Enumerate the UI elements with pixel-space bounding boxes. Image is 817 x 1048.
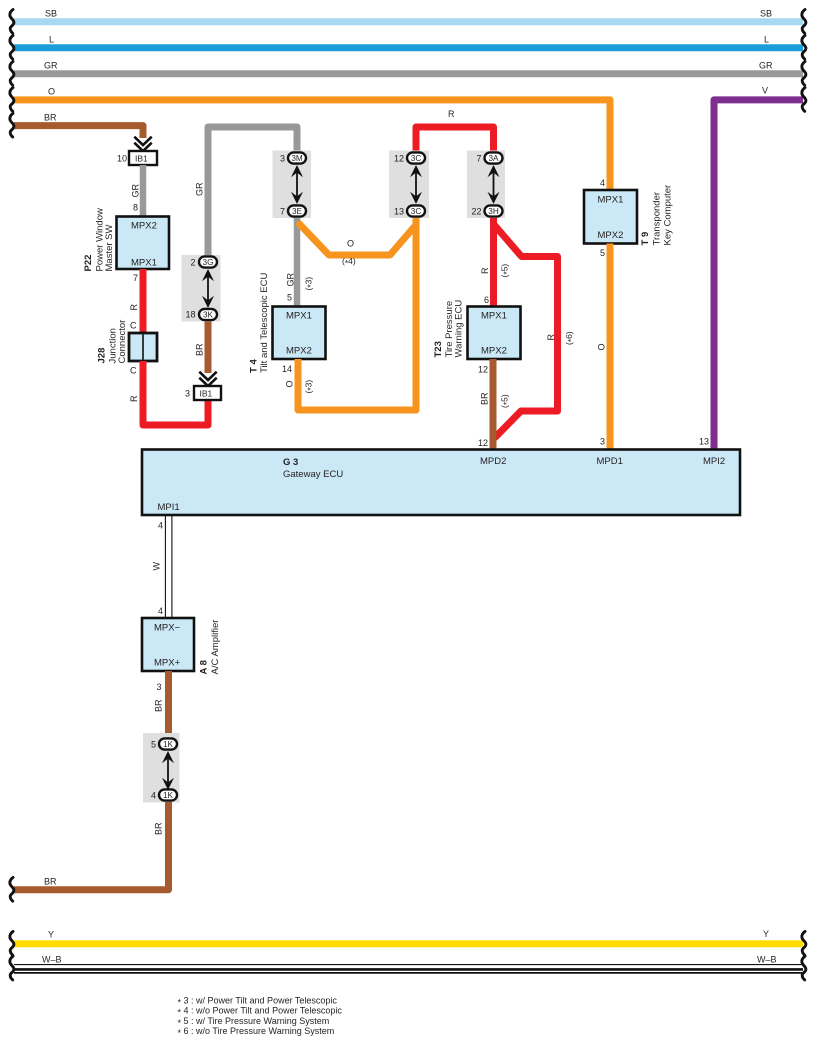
svg-text:Tilt and Telescopic ECU: Tilt and Telescopic ECU bbox=[259, 273, 270, 373]
wire R (*6) bypass loop bbox=[494, 224, 558, 438]
wire W-B bus (white with black stripe) bbox=[14, 964, 803, 966]
svg-text:5: 5 bbox=[287, 293, 292, 303]
wire V bus to G3 MPI2 bbox=[714, 100, 803, 451]
svg-text:R: R bbox=[129, 304, 139, 311]
svg-text:T23: T23 bbox=[433, 341, 444, 357]
chevron arrow into IB1 pin 3 bbox=[199, 372, 216, 386]
svg-text:3C: 3C bbox=[411, 154, 422, 163]
ECU T4 Tilt and Telescopic bbox=[273, 307, 326, 360]
svg-text:J28: J28 bbox=[97, 348, 108, 364]
wire Y bus bbox=[14, 940, 803, 947]
wire W from G3 MPI1 to A8 (white wire, outlined) bbox=[164, 515, 166, 618]
svg-text:BR: BR bbox=[154, 699, 164, 712]
chevron arrow into IB1 pin 10 bbox=[134, 137, 151, 151]
svg-text:C: C bbox=[130, 366, 137, 376]
svg-text:SB: SB bbox=[760, 9, 772, 19]
svg-text:L: L bbox=[764, 35, 769, 45]
svg-text:C: C bbox=[130, 321, 137, 331]
double arrow 3C-3C bbox=[410, 165, 422, 204]
svg-text:MPX2: MPX2 bbox=[598, 230, 624, 241]
svg-text:MPX1: MPX1 bbox=[598, 195, 624, 206]
junction connector J28 bbox=[129, 333, 157, 361]
svg-text:6: 6 bbox=[484, 295, 489, 305]
svg-text:2: 2 bbox=[190, 257, 195, 267]
svg-text:4: 4 bbox=[158, 606, 163, 616]
svg-text:GR: GR bbox=[759, 61, 773, 71]
break symbol GR left bbox=[10, 62, 14, 86]
svg-text:V: V bbox=[762, 86, 768, 96]
svg-text:7: 7 bbox=[476, 153, 481, 163]
svg-text:BR: BR bbox=[154, 822, 164, 835]
svg-text:4: 4 bbox=[600, 178, 605, 188]
svg-text:7: 7 bbox=[280, 206, 285, 216]
svg-text:MPX2: MPX2 bbox=[286, 346, 312, 357]
svg-text:R: R bbox=[129, 395, 139, 402]
svg-text:3C: 3C bbox=[411, 207, 422, 216]
svg-text:W–B: W–B bbox=[42, 955, 62, 965]
svg-text:4: 4 bbox=[151, 790, 156, 800]
svg-text:Master SW: Master SW bbox=[104, 224, 115, 271]
svg-text:3: 3 bbox=[280, 153, 285, 163]
connector shade 3G/3K bbox=[182, 255, 221, 322]
svg-text:IB1: IB1 bbox=[200, 389, 213, 399]
svg-text:MPX−: MPX− bbox=[154, 623, 181, 634]
svg-text:MPD1: MPD1 bbox=[597, 456, 623, 467]
svg-text:18: 18 bbox=[185, 310, 195, 320]
svg-text:MPI1: MPI1 bbox=[158, 502, 180, 513]
svg-text:13: 13 bbox=[699, 437, 709, 447]
svg-text:L: L bbox=[49, 35, 54, 45]
wire O bus to T9 pin 4 bbox=[14, 100, 610, 190]
svg-text:O: O bbox=[48, 87, 55, 97]
svg-text:MPI2: MPI2 bbox=[703, 456, 725, 467]
wire R from P22 pin 7 to J28 bbox=[140, 269, 147, 333]
svg-text:12: 12 bbox=[478, 365, 488, 375]
svg-text:3: 3 bbox=[600, 437, 605, 447]
svg-text:MPX1: MPX1 bbox=[481, 311, 507, 322]
ECU P22 Power Window Master SW bbox=[117, 217, 170, 270]
connector shade 3A/3H bbox=[467, 151, 505, 219]
wire SB bus bbox=[14, 18, 803, 25]
svg-text:O: O bbox=[597, 343, 607, 350]
svg-text:SB: SB bbox=[45, 9, 57, 19]
connector IB1 (pin 10) bbox=[129, 151, 157, 165]
svg-text:MPX2: MPX2 bbox=[131, 221, 157, 232]
svg-text:R: R bbox=[448, 109, 455, 119]
svg-text:3E: 3E bbox=[292, 207, 303, 216]
connector 3M pin 3 bbox=[288, 152, 306, 163]
svg-text:Key Computer: Key Computer bbox=[663, 185, 674, 246]
wire L bus bbox=[14, 44, 803, 51]
svg-text:3A: 3A bbox=[488, 154, 499, 163]
svg-text:3H: 3H bbox=[488, 207, 499, 216]
svg-text:3M: 3M bbox=[291, 154, 303, 163]
wire O from T9 pin 5 to G3 MPD1 bbox=[607, 244, 614, 452]
wire GR bridge 3G to 3M bbox=[208, 127, 297, 256]
svg-text:12: 12 bbox=[394, 153, 404, 163]
ECU T23 Tire Pressure Warning bbox=[468, 307, 521, 360]
svg-text:BR: BR bbox=[44, 113, 57, 123]
break symbol V right bbox=[802, 88, 806, 112]
break symbol GR right bbox=[802, 62, 806, 86]
connector shade 3M/3E bbox=[273, 151, 312, 219]
svg-text:3: 3 bbox=[157, 682, 162, 692]
wire BR from T23 pin 12 to G3 MPD2 bbox=[490, 359, 497, 451]
svg-text:BR: BR bbox=[44, 877, 57, 887]
svg-text:MPD2: MPD2 bbox=[480, 456, 506, 467]
double arrow 3M-3E bbox=[291, 165, 303, 204]
svg-text:10: 10 bbox=[117, 154, 127, 164]
wire O (*4) from 3E to 3C bbox=[298, 222, 415, 255]
svg-text:O: O bbox=[347, 239, 354, 249]
wire O from T4 pin 14 to 3C pin 13 bbox=[298, 218, 416, 410]
wire GR from 3E to T4 pin 5 bbox=[294, 218, 301, 307]
connector shade 1K/1K bbox=[143, 733, 180, 803]
svg-text:1K: 1K bbox=[163, 740, 174, 749]
double arrow 1K-1K bbox=[162, 751, 174, 790]
svg-text:A 8: A 8 bbox=[199, 660, 210, 674]
svg-text:W–B: W–B bbox=[757, 955, 777, 965]
svg-text:13: 13 bbox=[394, 206, 404, 216]
break symbol SB left bbox=[10, 9, 14, 33]
connector 1K pin 5 bbox=[159, 738, 177, 749]
break symbol W-B right bbox=[802, 956, 806, 980]
svg-text:R: R bbox=[480, 267, 490, 274]
svg-text:Gateway ECU: Gateway ECU bbox=[283, 469, 343, 480]
svg-text:A/C Amplifier: A/C Amplifier bbox=[210, 620, 221, 675]
svg-text:BR: BR bbox=[480, 392, 490, 405]
break symbol O left bbox=[10, 88, 14, 112]
double arrow 3A-3H bbox=[488, 165, 500, 204]
break symbol SB right bbox=[802, 9, 806, 33]
connector IB1 (pin 3) bbox=[194, 386, 221, 400]
wire BR bus to IB1 connector bbox=[14, 126, 143, 138]
svg-text:MPX2: MPX2 bbox=[481, 346, 507, 357]
wire R bridge 3C to 3A bbox=[416, 127, 494, 152]
svg-text:MPX1: MPX1 bbox=[131, 258, 157, 269]
wire GR from IB1 to P22 pin 8 bbox=[140, 165, 147, 217]
connector shade 3C/3C bbox=[389, 151, 429, 219]
connector 3C pin 13 bbox=[407, 205, 425, 216]
wire BR from 3K to IB1 pin 3 bbox=[205, 321, 212, 373]
svg-text:3: 3 bbox=[185, 389, 190, 399]
connector 1K pin 4 bbox=[159, 789, 177, 800]
connector 3E pin 7 bbox=[288, 205, 306, 216]
svg-text:Y: Y bbox=[763, 929, 769, 939]
svg-text:1K: 1K bbox=[163, 791, 174, 800]
break symbol Y left bbox=[10, 931, 14, 955]
svg-text:14: 14 bbox=[282, 364, 292, 374]
wire BR from A8 pin 3 to 1K bbox=[165, 671, 172, 737]
svg-text:T 9: T 9 bbox=[640, 232, 651, 246]
connector 3H pin 22 bbox=[485, 205, 503, 216]
svg-text:12: 12 bbox=[478, 438, 488, 448]
ECU G3 Gateway bbox=[142, 450, 740, 516]
svg-text:7: 7 bbox=[133, 273, 138, 283]
ECU A8 A/C Amplifier bbox=[142, 618, 194, 671]
svg-text:G 3: G 3 bbox=[283, 457, 298, 468]
svg-text:W: W bbox=[152, 562, 162, 571]
svg-text:22: 22 bbox=[471, 206, 481, 216]
break symbol L left bbox=[10, 35, 14, 59]
connector 3K pin 18 bbox=[199, 309, 217, 320]
wire BR from 1K pin 4 to BR bus bbox=[14, 802, 169, 890]
svg-text:8: 8 bbox=[133, 203, 138, 213]
svg-text:Warning ECU: Warning ECU bbox=[454, 300, 465, 358]
svg-text:O: O bbox=[285, 380, 295, 387]
svg-text:5: 5 bbox=[151, 739, 156, 749]
svg-text:T 4: T 4 bbox=[249, 359, 260, 373]
double arrow 3G-3K bbox=[202, 269, 214, 308]
ECU T9 Transponder Key Computer bbox=[584, 190, 637, 244]
svg-text:Y: Y bbox=[48, 930, 54, 940]
break symbol L right bbox=[802, 35, 806, 59]
svg-text:MPX1: MPX1 bbox=[286, 311, 312, 322]
svg-text:GR: GR bbox=[44, 61, 58, 71]
wire R from 3H to T23 pin 6 bbox=[490, 218, 497, 307]
svg-text:3G: 3G bbox=[203, 258, 214, 267]
svg-text:GR: GR bbox=[195, 182, 205, 196]
svg-text:IB1: IB1 bbox=[135, 154, 148, 164]
wire GR bus bbox=[14, 70, 803, 77]
svg-text:P22: P22 bbox=[83, 255, 94, 272]
break symbol BR bottom left bbox=[10, 877, 14, 901]
connector 3A pin 7 bbox=[485, 152, 503, 163]
break symbol W-B left bbox=[10, 956, 14, 980]
svg-text:GR: GR bbox=[286, 272, 296, 286]
svg-text:BR: BR bbox=[195, 343, 205, 356]
wire R from J28 to IB1 pin 3 bbox=[143, 361, 208, 425]
svg-text:Transponder: Transponder bbox=[652, 192, 663, 246]
svg-text:5: 5 bbox=[600, 248, 605, 258]
svg-text:MPX+: MPX+ bbox=[154, 658, 181, 669]
svg-text:3K: 3K bbox=[203, 311, 214, 320]
svg-text:GR: GR bbox=[131, 183, 141, 197]
connector 3C pin 12 bbox=[407, 152, 425, 163]
break symbol BR left bbox=[10, 113, 14, 137]
svg-text:R: R bbox=[546, 334, 556, 341]
svg-text:4: 4 bbox=[158, 521, 163, 531]
svg-text:Connector: Connector bbox=[117, 320, 128, 364]
connector 3G pin 2 bbox=[199, 256, 217, 267]
break symbol Y right bbox=[802, 931, 806, 955]
